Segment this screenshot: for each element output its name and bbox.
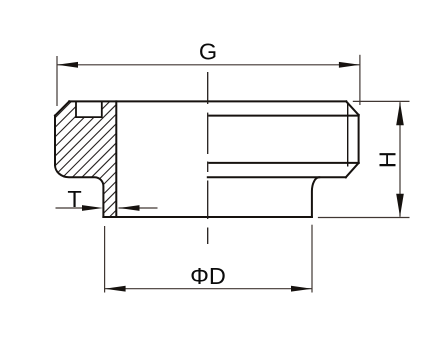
dimension H extension and dimension lines [318, 101, 410, 217]
dimension G right arrowhead [339, 62, 360, 68]
spigot bottom edge [103, 216, 312, 218]
dimension T right arrowhead [119, 205, 140, 211]
dimension H bottom arrowhead [396, 194, 404, 217]
top-right rim chamfer [346, 101, 358, 115]
left underside profile with corner radii into spigot wall [55, 165, 103, 217]
inner relief edge line at right end [347, 103, 349, 167]
svg-text:ΦD: ΦD [190, 263, 226, 289]
top-left rim chamfer [55, 101, 69, 115]
top face edge [69, 100, 346, 102]
dimension G left arrowhead [57, 62, 78, 68]
svg-text:H: H [374, 151, 400, 168]
dimension PhiD right arrowhead [291, 286, 312, 292]
underside edge line (right half) [208, 176, 346, 178]
section hatching of left cut wall [30, 13, 150, 306]
dimension T left arrowhead [82, 205, 103, 211]
dimension G extension and dimension lines [57, 55, 360, 106]
dimension T leader lines [56, 207, 158, 209]
bottom chamfer edge circle line [209, 162, 358, 164]
spigot right wall with fillet [312, 177, 319, 217]
svg-text:T: T [67, 186, 81, 212]
bore wall edge [115, 101, 117, 217]
right outer wall [358, 115, 360, 163]
dimension H top arrowhead [396, 102, 404, 125]
top chamfer edge circle line [209, 115, 358, 117]
left outer wall [54, 116, 56, 166]
bottom-right rim chamfer [346, 163, 359, 177]
dimension PhiD left arrowhead [105, 286, 126, 292]
vertical centerline (dashed) [207, 72, 209, 244]
svg-text:G: G [199, 39, 217, 65]
dimension PhiD extension and dimension lines [105, 225, 312, 293]
gasket groove in top face [76, 101, 102, 117]
